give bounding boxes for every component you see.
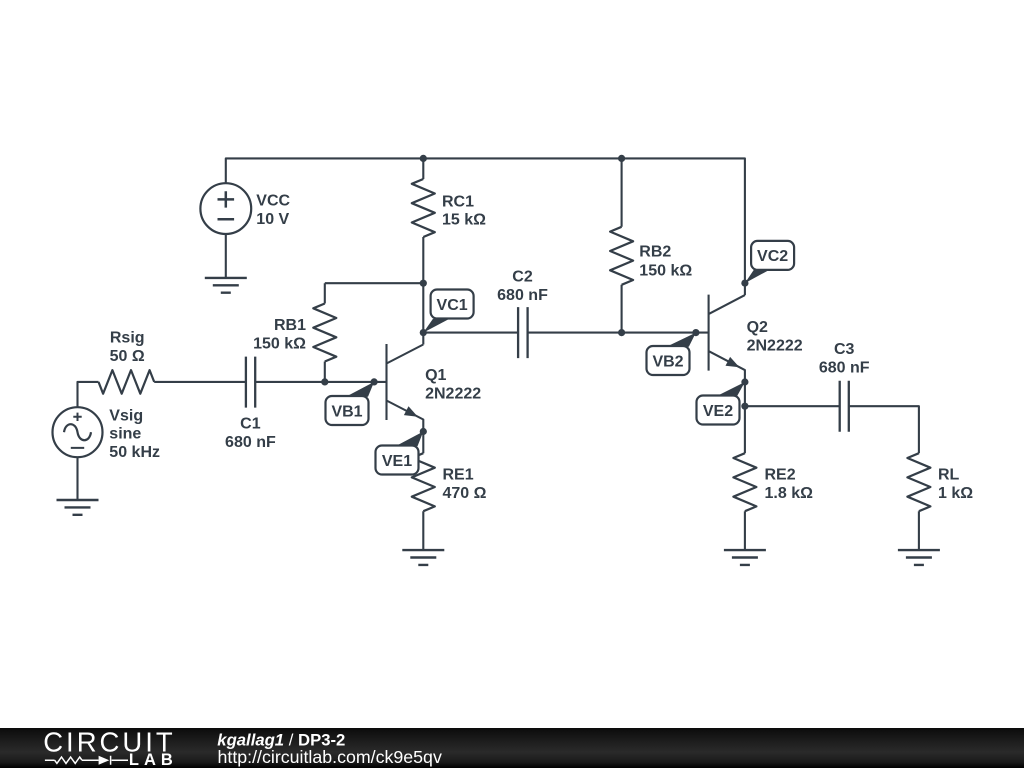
svg-text:VE2: VE2	[703, 403, 733, 420]
svg-text:680 nF: 680 nF	[497, 287, 548, 304]
svg-text:2N2222: 2N2222	[425, 386, 481, 403]
svg-text:VC2: VC2	[757, 248, 788, 265]
svg-text:C1: C1	[240, 416, 261, 433]
svg-text:Q2: Q2	[747, 319, 768, 336]
svg-text:1 kΩ: 1 kΩ	[938, 485, 973, 502]
svg-text:VC1: VC1	[437, 297, 468, 314]
svg-text:VE1: VE1	[382, 453, 412, 470]
svg-text:470 Ω: 470 Ω	[443, 485, 487, 502]
svg-text:RE2: RE2	[765, 467, 796, 484]
svg-text:http://circuitlab.com/ck9e5qv: http://circuitlab.com/ck9e5qv	[218, 747, 442, 767]
svg-text:680 nF: 680 nF	[819, 360, 870, 377]
svg-text:Q1: Q1	[425, 367, 446, 384]
svg-text:15 kΩ: 15 kΩ	[442, 212, 486, 229]
svg-text:RC1: RC1	[442, 193, 474, 210]
svg-text:2N2222: 2N2222	[747, 337, 803, 354]
svg-text:150 kΩ: 150 kΩ	[639, 262, 692, 279]
svg-text:RL: RL	[938, 467, 960, 484]
svg-text:C3: C3	[834, 341, 855, 358]
svg-text:150 kΩ: 150 kΩ	[253, 336, 306, 353]
svg-text:RB1: RB1	[274, 317, 306, 334]
svg-text:50 kHz: 50 kHz	[109, 444, 160, 461]
svg-text:1.8 kΩ: 1.8 kΩ	[765, 485, 814, 502]
svg-text:50 Ω: 50 Ω	[110, 348, 145, 365]
svg-text:10 V: 10 V	[256, 211, 289, 228]
svg-text:Rsig: Rsig	[110, 330, 145, 347]
svg-text:RB2: RB2	[639, 244, 671, 261]
svg-text:LAB: LAB	[129, 751, 178, 768]
svg-text:VB1: VB1	[331, 403, 362, 420]
svg-text:C2: C2	[512, 269, 533, 286]
svg-text:RE1: RE1	[443, 467, 474, 484]
svg-text:VB2: VB2	[652, 353, 683, 370]
svg-text:sine: sine	[109, 426, 141, 443]
svg-text:Vsig: Vsig	[109, 407, 143, 424]
svg-text:680 nF: 680 nF	[225, 434, 276, 451]
svg-text:VCC: VCC	[256, 193, 290, 210]
